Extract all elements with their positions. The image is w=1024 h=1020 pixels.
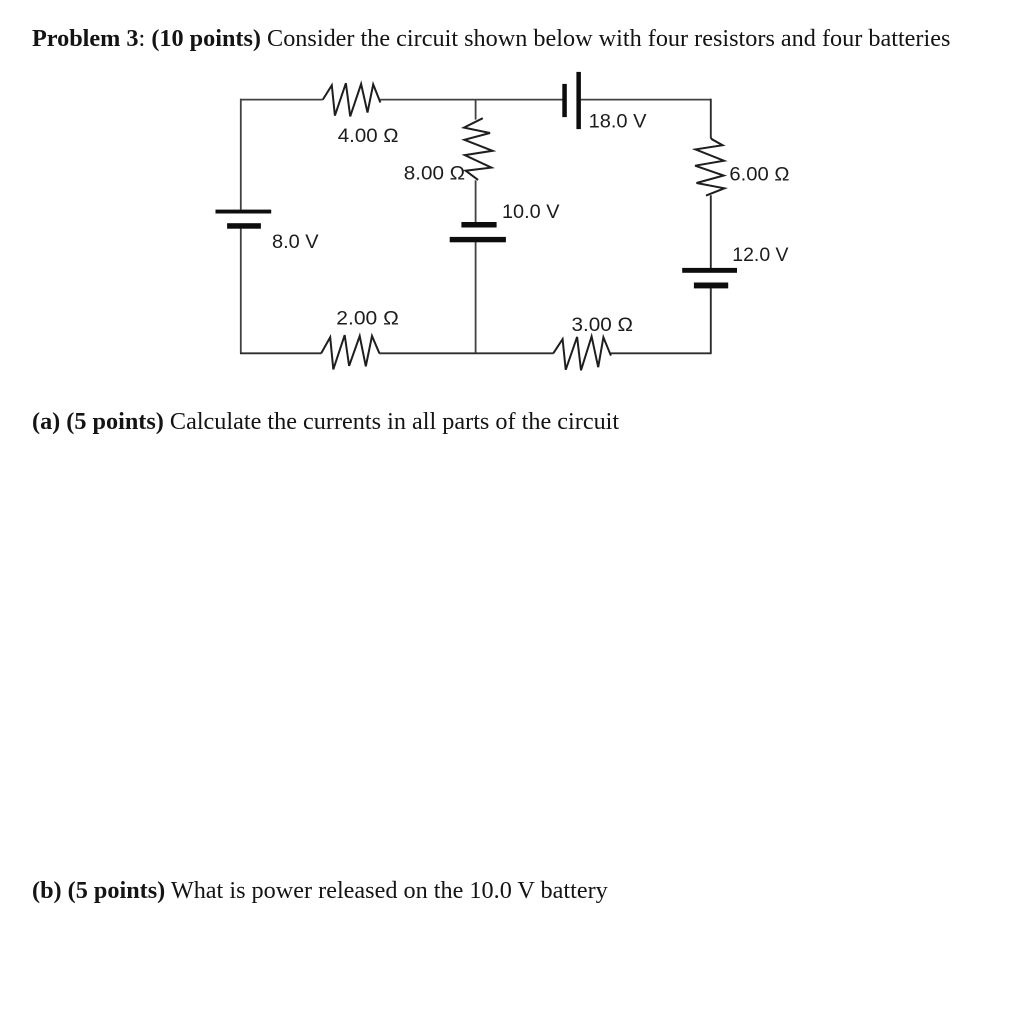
- svg-text:3.00 Ω: 3.00 Ω: [572, 314, 634, 336]
- svg-text:18.0 V: 18.0 V: [589, 110, 647, 132]
- svg-text:2.00 Ω: 2.00 Ω: [336, 308, 399, 330]
- svg-text:12.0 V: 12.0 V: [732, 244, 788, 266]
- svg-text:6.00 Ω: 6.00 Ω: [729, 163, 789, 185]
- svg-text:4.00 Ω: 4.00 Ω: [338, 125, 399, 147]
- svg-text:8.0 V: 8.0 V: [272, 231, 319, 253]
- svg-text:8.00 Ω: 8.00 Ω: [404, 162, 465, 184]
- svg-text:10.0 V: 10.0 V: [502, 201, 560, 223]
